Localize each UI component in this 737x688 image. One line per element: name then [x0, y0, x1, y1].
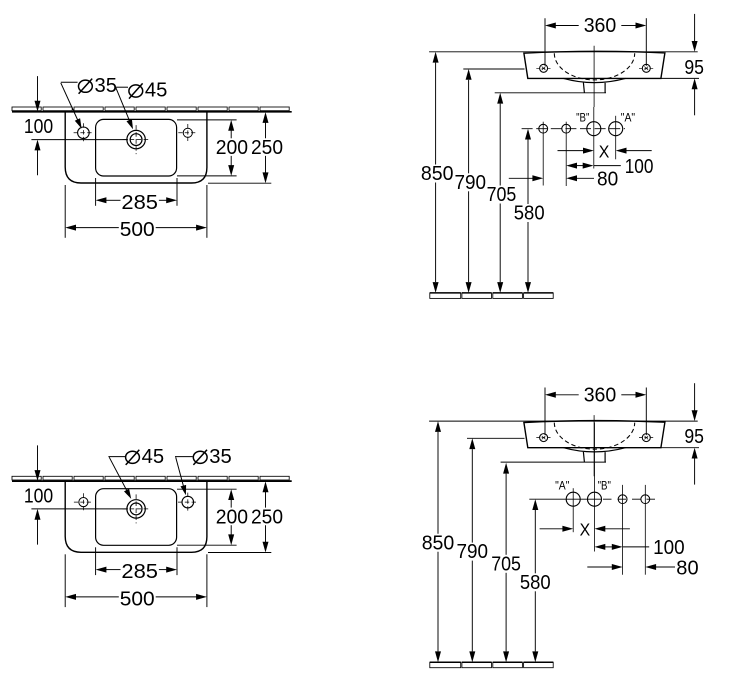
svg-text:500: 500	[120, 219, 155, 241]
Q3 inner bowl outline	[96, 489, 177, 546]
Q4 right tap hole (front)	[639, 434, 654, 442]
Q3 dimension 250 lines	[208, 481, 271, 552]
svg-text:100: 100	[625, 156, 654, 178]
svg-text:200: 200	[216, 137, 248, 159]
Q2 dimension text 100	[625, 156, 654, 178]
Q3 faucet hole Ø35	[178, 493, 198, 512]
Q1 dimension text 100	[24, 116, 53, 138]
Q2 label "A"	[621, 112, 635, 125]
svg-text:850: 850	[421, 163, 454, 185]
Q2 dimension text 705	[487, 184, 517, 206]
svg-text:X: X	[580, 519, 591, 539]
Q4 left tap hole (front)	[536, 434, 551, 442]
Q4 dimension 580 lines	[532, 499, 538, 662]
svg-text:250: 250	[251, 507, 283, 529]
Q3 dimension text 285	[121, 561, 158, 583]
Q1 label Ø45	[129, 80, 167, 102]
svg-text:35: 35	[95, 75, 118, 97]
Q1 leader line to Ø35 hole	[61, 82, 82, 128]
svg-text:705: 705	[491, 553, 521, 575]
Q2 mounting holes centre line	[522, 128, 625, 130]
Q3 label Ø35	[193, 446, 232, 468]
Q4 dimension text 95	[684, 426, 704, 448]
Q2 basin centre line	[593, 46, 595, 107]
svg-text:80: 80	[676, 558, 698, 580]
Q4 siphon outlet	[583, 452, 605, 462]
Q3 faucet hole Ø45	[123, 494, 150, 523]
Q4 fixing hole "B"	[588, 423, 602, 552]
Q3 overflow hole	[74, 493, 93, 511]
svg-text:95: 95	[684, 426, 704, 448]
Q3 label Ø45	[126, 446, 165, 468]
Q1 faucet hole Ø45	[123, 125, 150, 154]
Q2 washbasin body (front view)	[524, 51, 665, 78]
Q3 dimension text 500	[120, 588, 155, 610]
Q2 fixing hole 1	[539, 122, 548, 186]
Q4 dimension text 80	[676, 558, 698, 580]
Q2 top reference line (rim level)	[429, 51, 698, 53]
svg-text:790: 790	[457, 541, 489, 563]
Q3 dimension text 100	[24, 486, 53, 508]
Q4 dimension 705 lines	[503, 463, 509, 662]
Q2 floor tiles	[430, 293, 553, 299]
Q4 label "A"	[555, 479, 569, 492]
Q3 leader line to Ø45 hole	[108, 457, 131, 499]
svg-text:360: 360	[584, 15, 617, 37]
Q2 dimension 100 lines	[566, 163, 621, 169]
Q2 reference line at siphon bottom	[495, 92, 606, 94]
svg-text:100: 100	[24, 486, 53, 508]
Q2 hidden bowl contour (dashed)	[554, 53, 634, 80]
Q2 right tap hole (front)	[639, 64, 654, 72]
Q1 washbasin outer outline (top view)	[65, 112, 207, 183]
Q3 wall section with tile hatching	[12, 476, 292, 481]
Q2 dimension text X	[599, 141, 610, 161]
Q2 dimension 850 lines	[433, 52, 439, 293]
Q2 dimension text 360	[584, 15, 617, 37]
Q3 washbasin outer outline (top view)	[65, 481, 207, 552]
Q1 leader line to Ø45 hole	[116, 87, 133, 129]
Q2 dimension text 790	[455, 172, 487, 194]
svg-text:X: X	[599, 141, 610, 161]
Q2 dimension 790 lines	[466, 69, 472, 293]
Q4 dimension text 790	[457, 541, 489, 563]
Q2 dimension 80 lines	[509, 175, 594, 181]
Q4 washbasin body (front view)	[524, 421, 665, 448]
Q1 dimension 250 lines	[208, 112, 271, 183]
Q2 fixing hole "B"	[587, 107, 601, 169]
Q4 basin centre line	[593, 415, 595, 476]
Q4 reference line at siphon bottom	[501, 461, 606, 463]
Q4 top reference line (rim level)	[429, 420, 698, 422]
Q3 dimension 100 lines	[31, 445, 128, 544]
Q2 siphon outlet	[583, 83, 605, 93]
Q1 dimension text 285	[121, 192, 158, 214]
Q2 dimension X lines	[558, 148, 652, 154]
svg-text:100: 100	[24, 116, 53, 138]
svg-text:"A": "A"	[621, 112, 635, 125]
Q1 dimension 200 lines	[177, 120, 237, 176]
svg-text:200: 200	[216, 507, 248, 529]
Q4 hidden bowl contour (dashed)	[554, 423, 634, 450]
Q4 bowl underside	[564, 448, 626, 452]
Q2 reference line at tap hole level	[463, 68, 524, 70]
Q3 dimension 200 lines	[177, 489, 237, 545]
Q4 dimension 80 lines	[587, 564, 675, 570]
svg-text:285: 285	[121, 192, 158, 214]
Q2 dimension 360 lines	[545, 18, 646, 66]
Q3 leader line to Ø35 hole	[175, 457, 193, 496]
Q4 dimension X lines	[540, 526, 630, 532]
Q4 dimension 360 lines	[545, 388, 646, 436]
Q2 left tap hole (front)	[536, 64, 551, 72]
Q1 dimension text 500	[120, 219, 155, 241]
svg-text:35: 35	[209, 446, 232, 468]
Q4 dimension 95 lines	[661, 383, 699, 484]
Q2 fixing hole "A"	[609, 116, 623, 160]
Q2 fixing hole 2	[562, 122, 571, 186]
Q1 dimension text 200 250	[216, 137, 283, 159]
Q2 dimension 705 lines	[497, 93, 503, 293]
svg-text:285: 285	[121, 561, 158, 583]
Q2 dimension text 80	[597, 169, 618, 191]
Q4 reference line at tap hole level	[467, 437, 525, 439]
Q1 overflow hole	[178, 124, 197, 142]
Q4 dimension text 100	[653, 537, 685, 559]
svg-text:705: 705	[487, 184, 517, 206]
svg-text:850: 850	[422, 532, 455, 554]
Q2 bowl underside	[564, 78, 626, 82]
Q4 label "B"	[598, 479, 611, 492]
Q4 dimension 100 lines	[595, 544, 650, 550]
Q4 fixing hole 3	[618, 485, 627, 575]
svg-text:95: 95	[684, 57, 704, 79]
Q1 dimension 285 lines	[96, 178, 177, 206]
Q4 dimension text 705	[491, 553, 521, 575]
Q4 dimension 790 lines	[469, 438, 475, 662]
Q4 dimension text 850	[422, 532, 455, 554]
svg-text:790: 790	[455, 172, 487, 194]
svg-text:45: 45	[145, 80, 168, 102]
Q2 dimension 580 lines	[525, 129, 531, 293]
Q3 dimension text 200 250	[216, 507, 283, 529]
svg-text:45: 45	[142, 446, 165, 468]
svg-text:250: 250	[251, 137, 283, 159]
svg-text:360: 360	[584, 385, 617, 407]
svg-text:"A": "A"	[555, 479, 569, 492]
Q1 dimension 100 lines	[31, 76, 128, 175]
Q2 dimension 95 lines	[661, 14, 699, 115]
Q2 dimension text 95	[684, 57, 704, 79]
Q4 dimension text 360	[584, 385, 617, 407]
Q3 dimension 500 lines	[65, 554, 207, 607]
svg-text:100: 100	[653, 537, 685, 559]
svg-text:"B": "B"	[576, 112, 589, 125]
Q4 fixing hole "A"	[566, 488, 580, 532]
svg-text:"B": "B"	[598, 479, 611, 492]
svg-text:80: 80	[597, 169, 618, 191]
svg-text:500: 500	[120, 588, 155, 610]
svg-text:580: 580	[514, 203, 545, 225]
Q1 wall section with tile hatching	[12, 107, 292, 112]
Q2 label "B"	[576, 112, 589, 125]
Q2 dimension text 850	[421, 163, 454, 185]
svg-text:580: 580	[520, 572, 551, 594]
Q1 inner bowl outline	[96, 119, 177, 176]
Q4 floor tiles	[430, 662, 553, 668]
Q3 dimension 285 lines	[96, 547, 177, 575]
Q4 dimension text 580	[520, 572, 551, 594]
Q2 dimension text 580	[514, 203, 545, 225]
Q1 faucet hole Ø35	[74, 123, 94, 142]
Q4 fixing hole 4	[641, 485, 650, 575]
Q4 mounting holes centre line	[529, 498, 657, 500]
Q1 dimension 500 lines	[65, 185, 207, 238]
Q4 dimension 850 lines	[435, 421, 441, 662]
Q4 dimension text X	[580, 519, 591, 539]
Q1 label Ø35	[79, 75, 118, 97]
